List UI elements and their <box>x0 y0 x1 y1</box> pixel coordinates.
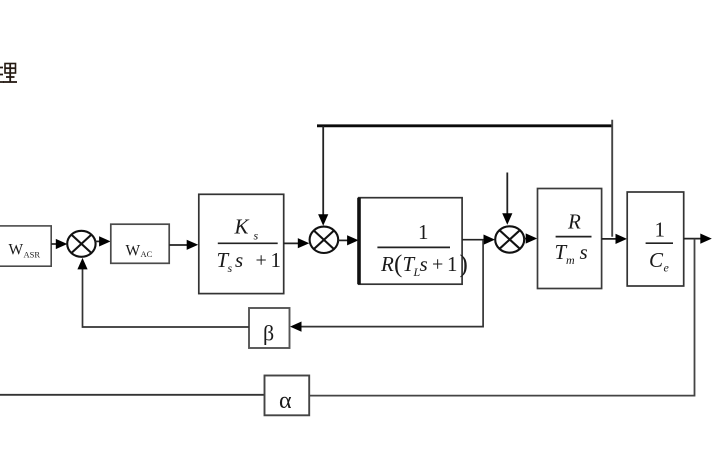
summing junction S1 <box>67 231 95 257</box>
wire block Ks to S2 <box>284 242 301 244</box>
wire: alpha feedback riser down <box>309 239 694 396</box>
arrowhead into block 1/R(TLs+1) <box>347 235 359 245</box>
svg-text:e: e <box>664 261 670 275</box>
svg-text:1: 1 <box>655 218 666 242</box>
svg-text:C: C <box>649 248 664 272</box>
arrowhead into S1 <box>56 239 68 249</box>
CJK text fragment 理 (drawn strokes, cut at left edge) <box>0 64 17 83</box>
svg-text:R: R <box>380 252 394 276</box>
svg-text:m: m <box>566 253 575 267</box>
wire: alpha output to left edge <box>0 394 265 396</box>
block W_ASR <box>0 226 51 266</box>
svg-text:1: 1 <box>271 248 282 272</box>
wire: beta output back to S1 <box>83 269 250 328</box>
svg-text:+: + <box>256 250 267 272</box>
output wire <box>684 238 704 240</box>
svg-text:α: α <box>279 388 292 414</box>
summing junction S2 <box>310 227 339 253</box>
block 1/Ce <box>627 192 684 286</box>
wire W_AC to block Ks <box>169 244 190 246</box>
block alpha <box>265 376 310 416</box>
block W_AC <box>111 224 169 263</box>
svg-text:s: s <box>235 248 243 272</box>
wire block4 to S3 <box>462 239 487 241</box>
top feedback line (thick) <box>317 124 613 127</box>
svg-text:ASR: ASR <box>24 250 41 260</box>
svg-text:s: s <box>420 252 428 276</box>
svg-text:R: R <box>567 210 581 234</box>
arrowhead down into S2 top <box>318 214 328 226</box>
wire: riser from main line up to top line <box>611 120 613 237</box>
svg-text:s: s <box>580 240 588 264</box>
svg-text:1: 1 <box>447 252 458 276</box>
wire: disturbance arrow into S3 top <box>506 173 508 218</box>
wire S2 to block 1/R(TLs+1) <box>338 239 351 241</box>
svg-text:K: K <box>234 215 250 239</box>
arrowhead into W_AC <box>99 236 111 246</box>
summing junction S3 <box>495 226 524 252</box>
svg-text:W: W <box>126 243 141 260</box>
block beta <box>249 308 290 348</box>
svg-text:): ) <box>460 251 468 278</box>
arrowhead into block 1/Ce <box>616 234 628 244</box>
arrowhead into beta <box>290 322 302 332</box>
svg-text:W: W <box>9 242 24 259</box>
wire W_ASR to S1 <box>51 243 59 245</box>
arrowhead into S3 <box>484 235 496 245</box>
svg-text:β: β <box>263 321 274 346</box>
arrowhead down into S3 top <box>502 213 512 225</box>
wire S1 to W_AC <box>95 240 102 242</box>
wire S3 to block R/Tms <box>524 238 530 240</box>
block Ks/(Ts s+1) <box>199 194 284 293</box>
arrowhead into block Ks <box>187 240 199 250</box>
arrowhead output <box>700 234 712 244</box>
arrowhead up into S1 bottom <box>77 258 87 270</box>
svg-text:(: ( <box>394 251 402 278</box>
svg-text:s: s <box>254 229 259 243</box>
block R/Tms <box>538 189 602 289</box>
wire block5 to block 1/Ce (with riser junction) <box>602 238 620 240</box>
svg-text:+: + <box>432 254 443 276</box>
svg-text:s: s <box>228 261 233 275</box>
wire: drop from top line into S2 <box>322 126 324 219</box>
arrowhead into S2 <box>298 238 310 248</box>
svg-text:AC: AC <box>141 249 153 259</box>
wire: beta tap down from segment F <box>300 240 484 327</box>
svg-text:1: 1 <box>418 220 429 244</box>
arrowhead into block R/Tms <box>526 233 538 243</box>
block 1/R(TLs+1) <box>359 198 468 285</box>
